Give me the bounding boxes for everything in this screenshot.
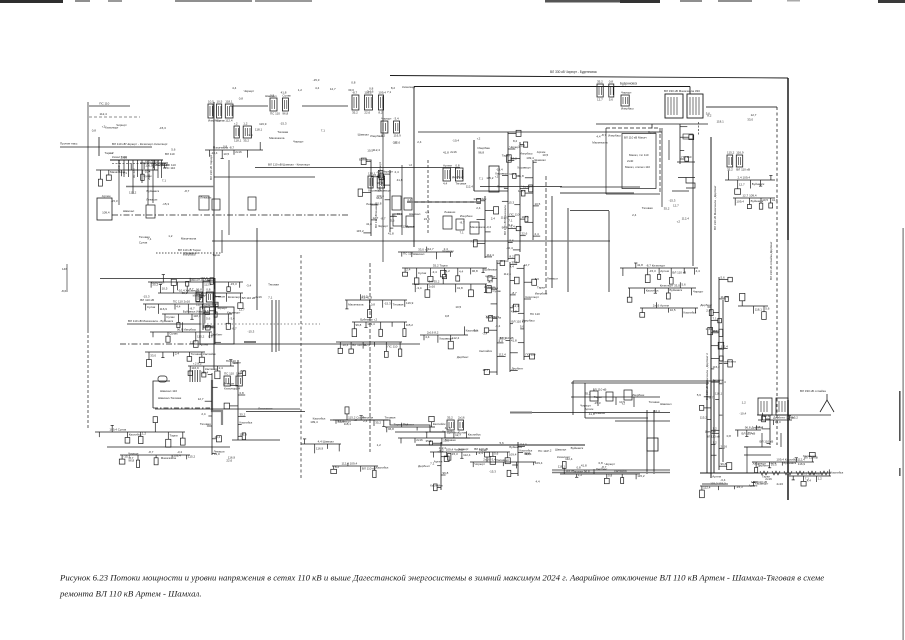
wire gray y447 [744, 446, 771, 448]
svg-text:22,6: 22,6 [364, 343, 370, 347]
wire x647 [646, 410, 648, 474]
svg-text:8,2: 8,2 [513, 139, 518, 143]
svg-text:41,8: 41,8 [281, 91, 287, 95]
svg-text:22,6: 22,6 [364, 111, 370, 115]
labels bottom-left [128, 450, 235, 463]
vbus x212 lower [198, 371, 225, 455]
svg-text:118,1: 118,1 [558, 464, 566, 468]
svg-text:Махач, тяг 110: Махач, тяг 110 [629, 153, 649, 157]
svg-text:41,8: 41,8 [772, 198, 778, 202]
svg-text:2,4: 2,4 [175, 352, 180, 356]
bus [140, 159, 176, 170]
wire x229 [228, 160, 230, 235]
svg-text:Тяговая 96,8: Тяговая 96,8 [572, 470, 590, 474]
svg-text:ВЛ 110 кВ Чирюрт - Кизилюрт-Ки: ВЛ 110 кВ Чирюрт - Кизилюрт-Кизилюрт [112, 142, 168, 146]
svg-text:ВЛ 330 кВ Чирюрт - Буденновск: ВЛ 330 кВ Чирюрт - Буденновск [550, 70, 597, 74]
svg-text:0,8: 0,8 [206, 288, 211, 292]
svg-text:-15,3: -15,3 [594, 401, 601, 405]
labels midrect [585, 400, 660, 416]
vbus x441 TPP [426, 439, 451, 491]
svg-text:4,4: 4,4 [536, 480, 541, 484]
svg-text:5,6: 5,6 [494, 452, 499, 456]
svg-text:5,6: 5,6 [500, 441, 505, 445]
labels top-left [92, 102, 166, 133]
svg-text:-3,4: -3,4 [246, 284, 252, 288]
wire left feeder dashed [87, 330, 89, 430]
svg-text:Тарки 10,5: Тарки 10,5 [394, 423, 409, 427]
svg-text:22,6: 22,6 [424, 217, 430, 221]
svg-text:Хасавюрт: Хасавюрт [496, 458, 510, 462]
svg-text:ПС 110 2x16: ПС 110 2x16 [173, 300, 191, 304]
svg-text:7,1: 7,1 [713, 317, 718, 321]
svg-text:-10,4: -10,4 [739, 411, 746, 415]
wire y167 Shamkhal [255, 167, 460, 169]
svg-text:5,6 118,1: 5,6 118,1 [190, 278, 203, 282]
svg-text:115,2: 115,2 [486, 176, 494, 180]
wire Derbent gray [754, 472, 831, 474]
bus box midrect 2 [606, 392, 613, 401]
svg-text:2x16: 2x16 [429, 285, 436, 289]
svg-text:0,8: 0,8 [351, 81, 356, 85]
svg-text:112,4: 112,4 [682, 217, 690, 221]
labels corridor2 [366, 202, 430, 228]
svg-text:8,2: 8,2 [510, 255, 515, 259]
labels staircase [353, 416, 456, 450]
svg-text:4,4: 4,4 [807, 478, 812, 482]
svg-text:т.2: т.2 [677, 219, 681, 223]
svg-text:4,4: 4,4 [425, 211, 430, 215]
svg-text:7,1: 7,1 [321, 129, 326, 133]
svg-text:4,4 Шамхал: 4,4 Шамхал [318, 440, 335, 444]
svg-text:-15,3: -15,3 [111, 199, 118, 203]
wire x585 [584, 383, 586, 418]
labels central upper [443, 137, 525, 155]
svg-text:1,2: 1,2 [142, 432, 147, 436]
svg-text:7,1: 7,1 [748, 431, 753, 435]
svg-text:12,7: 12,7 [428, 247, 434, 251]
bus box corridor [392, 196, 401, 210]
bus 188-366 [188, 360, 241, 379]
svg-text:1,2: 1,2 [298, 88, 303, 92]
svg-text:2,4: 2,4 [406, 268, 411, 272]
svg-text:10,5: 10,5 [542, 153, 548, 157]
svg-text:-3,4: -3,4 [507, 223, 513, 227]
svg-text:109,4: 109,4 [509, 453, 517, 457]
rect Artem-Shamkhal block (open, dash-dot bottom) [153, 381, 170, 408]
svg-text:Сулак: Сулак [418, 271, 427, 275]
labels ring below [632, 198, 689, 223]
svg-text:7,1: 7,1 [479, 177, 484, 181]
svg-text:Махачкала: Махачкала [592, 141, 608, 145]
wire VL-330 Chiryurt-Budennovsk [390, 76, 788, 79]
svg-text:Изербаш: Изербаш [535, 291, 548, 295]
svg-text:Буйнакск: Буйнакск [509, 445, 522, 449]
svg-text:Артем: Артем [102, 194, 111, 198]
svg-text:2,4: 2,4 [444, 247, 449, 251]
svg-text:Артем: Артем [434, 459, 443, 463]
svg-text:Хасавюрт: Хасавюрт [377, 189, 391, 193]
svg-text:Рисунок 6.23 Потоки мощности и: Рисунок 6.23 Потоки мощности и уровни на… [59, 573, 824, 583]
svg-text:Хасавюрт: Хасавюрт [517, 165, 531, 169]
wire y440 Zagorodny [232, 439, 280, 441]
wire y241 [212, 240, 610, 242]
svg-text:Изербаш: Изербаш [632, 393, 645, 397]
svg-text:109,4 96,8: 109,4 96,8 [145, 159, 160, 163]
bus airport stub [331, 462, 389, 478]
wire x552 [551, 196, 553, 288]
labels left [105, 147, 176, 182]
wire y106b [302, 105, 348, 107]
svg-text:Каспийск: Каспийск [376, 466, 389, 470]
svg-text:0,8: 0,8 [240, 391, 245, 395]
svg-text:Хасавюрт: Хасавюрт [337, 419, 351, 423]
svg-text:Тяговая: Тяговая [277, 130, 288, 134]
bus Novolak r1 [398, 247, 453, 260]
bus box c3 [470, 222, 479, 234]
bus Derbent bottom [789, 469, 844, 486]
svg-text:Чирюрт: Чирюрт [378, 224, 389, 228]
wire x99 [98, 137, 100, 156]
svg-text:1,2: 1,2 [713, 440, 718, 444]
svg-text:112,4: 112,4 [703, 485, 711, 489]
svg-text:41,8: 41,8 [518, 174, 524, 178]
bus stair row1 [333, 407, 388, 427]
svg-text:ВЛ 110 кВ: ВЛ 110 кВ [706, 435, 720, 439]
svg-text:1,2: 1,2 [818, 477, 823, 481]
svg-text:96,8 Изербаш: 96,8 Изербаш [177, 328, 197, 332]
vbus x203 [193, 277, 216, 330]
svg-text:0,8: 0,8 [371, 303, 376, 307]
svg-text:Дербент: Дербент [700, 303, 712, 307]
bus left 170 [96, 160, 170, 186]
svg-text:35,2: 35,2 [240, 412, 246, 416]
bus Derbent y462 [752, 453, 815, 473]
svg-text:Шамхал: Шамхал [413, 252, 425, 256]
svg-text:2,4: 2,4 [417, 140, 422, 144]
svg-text:5,6: 5,6 [682, 283, 687, 287]
substation top2 [621, 91, 634, 111]
svg-text:ВЛ 330 кВ Махачкала 330: ВЛ 330 кВ Махачкала 330 [664, 89, 700, 93]
svg-text:118,1: 118,1 [715, 392, 723, 396]
wire gray x568 [567, 208, 569, 292]
svg-text:Хасавюрт: Хасавюрт [755, 482, 769, 486]
svg-text:2,4: 2,4 [201, 412, 206, 416]
svg-text:22,6: 22,6 [522, 232, 528, 236]
substation corridor [368, 172, 391, 193]
svg-text:4,4: 4,4 [176, 304, 181, 308]
svg-text:-10,4: -10,4 [506, 246, 513, 250]
wire dotted y324 [200, 323, 320, 325]
svg-text:4,4: 4,4 [315, 86, 320, 90]
substation Tarki [196, 288, 214, 307]
svg-text:ПС 110: ПС 110 [99, 102, 109, 106]
svg-text:Каспийск: Каспийск [684, 311, 697, 315]
svg-text:12,7: 12,7 [236, 372, 242, 376]
labels central top [452, 150, 548, 188]
labels central [443, 206, 513, 253]
svg-text:Изербаш: Изербаш [608, 134, 621, 138]
svg-text:Чирюрт: Чирюрт [244, 89, 255, 93]
svg-text:2,4: 2,4 [395, 170, 400, 174]
svg-text:ВЛ 110 кВ: ВЛ 110 кВ [760, 440, 774, 444]
svg-text:118,1: 118,1 [755, 308, 763, 312]
vbus x238 Artem [223, 359, 253, 440]
substation Chiryurt GES-2 [381, 117, 401, 138]
wire y124 [596, 123, 708, 125]
svg-text:5,6 35,2: 5,6 35,2 [429, 280, 440, 284]
svg-text:-8,7: -8,7 [148, 450, 154, 454]
wire x276 [275, 300, 277, 352]
svg-text:-15,3: -15,3 [123, 454, 130, 458]
svg-text:-8,7: -8,7 [488, 280, 494, 284]
svg-text:12,7: 12,7 [198, 397, 204, 401]
svg-text:116,9: 116,9 [316, 447, 324, 451]
svg-text:Тяговая: Тяговая [393, 302, 404, 306]
labels central lower [445, 305, 540, 359]
svg-text:Тяговая: Тяговая [713, 378, 724, 382]
svg-text:Дербент: Дербент [457, 355, 469, 359]
bus Izberbash 1 [620, 263, 700, 284]
svg-text:ремонта ВЛ 110 кВ Артем - Шам: ремонта ВЛ 110 кВ Артем - Шамхал. [59, 589, 202, 599]
svg-text:5,6: 5,6 [697, 393, 702, 397]
wire x781 [780, 433, 782, 447]
svg-text:96,8: 96,8 [721, 462, 727, 466]
svg-text:ПС 110: ПС 110 [510, 212, 520, 216]
wire y411 Leninkent [246, 411, 305, 413]
svg-text:Каспийск: Каспийск [646, 289, 659, 293]
svg-text:115,2: 115,2 [727, 151, 735, 155]
bus Izberbash 2 [627, 282, 704, 302]
wire x714 [713, 380, 715, 473]
svg-text:-8,6: -8,6 [61, 289, 67, 293]
svg-text:1,2: 1,2 [377, 443, 382, 447]
wire y344 [195, 343, 420, 345]
svg-text:ПС 110: ПС 110 [538, 449, 548, 453]
wire x654 [653, 410, 655, 474]
svg-text:12,7: 12,7 [483, 368, 489, 372]
svg-text:112,4: 112,4 [769, 461, 777, 465]
svg-text:Каспийск: Каспийск [129, 432, 142, 436]
svg-text:Сулак: Сулак [166, 315, 175, 319]
vbus x497 [483, 259, 509, 375]
wire gray x723 [722, 300, 724, 462]
svg-text:112,4: 112,4 [504, 272, 512, 276]
svg-text:ВЛ 110 кВ: ВЛ 110 кВ [140, 298, 154, 302]
wire x747 [746, 447, 748, 473]
svg-text:Шамхал-Тяговая: Шамхал-Тяговая [158, 396, 182, 400]
svg-text:35,2: 35,2 [182, 291, 188, 295]
svg-text:ВЛ 110 кВ Махачкала - Буйнакск: ВЛ 110 кВ Махачкала - Буйнакск [128, 319, 174, 323]
svg-text:Изербаш: Изербаш [621, 107, 634, 111]
substation top [597, 80, 614, 102]
bus Izberbash 3 [640, 302, 698, 317]
labels bottom-center [418, 441, 603, 484]
svg-text:1,2: 1,2 [446, 269, 451, 273]
svg-text:Артем: Артем [199, 343, 208, 347]
svg-text:2,4: 2,4 [476, 206, 481, 210]
bus box Makhachkala-330 A [665, 94, 683, 118]
svg-text:116,9: 116,9 [191, 366, 199, 370]
svg-text:Махачкала: Махачкала [181, 237, 197, 241]
labels y240 left [139, 234, 221, 257]
svg-text:116,9: 116,9 [736, 151, 744, 155]
svg-text:96,8: 96,8 [282, 112, 288, 116]
svg-text:Кизил ГЭС: Кизил ГЭС [112, 155, 128, 159]
svg-text:Леваши: Леваши [200, 196, 211, 200]
svg-text:112,4: 112,4 [512, 304, 520, 308]
svg-text:0,8: 0,8 [208, 335, 213, 339]
svg-text:4,4: 4,4 [696, 269, 701, 273]
wire x573 [572, 381, 574, 415]
wire y106 left [89, 105, 130, 107]
svg-text:Тарки: Тарки [479, 448, 487, 452]
svg-text:5,6: 5,6 [520, 325, 525, 329]
svg-text:ВЛ 110 кВ: ВЛ 110 кВ [500, 336, 514, 340]
wire left feeder x88 [87, 102, 89, 330]
svg-text:Дербент: Дербент [211, 333, 223, 337]
svg-text:7,1: 7,1 [387, 90, 392, 94]
bus small right [735, 425, 764, 437]
wire staircase ring [686, 178, 695, 189]
svg-text:10,5: 10,5 [455, 305, 461, 309]
comb drop [157, 160, 159, 178]
bus mid-left r1 [148, 275, 243, 292]
svg-text:ПС 110: ПС 110 [388, 345, 398, 349]
labels Derbent bottom [712, 474, 811, 487]
svg-text:-10,4: -10,4 [496, 168, 503, 172]
wire fork stem [826, 394, 828, 400]
wire x707 [706, 380, 708, 473]
wire x383 [382, 96, 384, 262]
svg-text:Чирюрт: Чирюрт [474, 462, 485, 466]
svg-text:-10,4: -10,4 [653, 409, 660, 413]
svg-text:Каспийск: Каспийск [203, 352, 216, 356]
svg-text:4,4: 4,4 [443, 182, 448, 186]
svg-text:112,4 109,4: 112,4 109,4 [342, 462, 358, 466]
svg-text:10,5: 10,5 [217, 100, 223, 104]
wire gray y472 [552, 472, 670, 474]
wire y470 [552, 469, 670, 471]
induction zigzags on y473 [760, 471, 768, 475]
svg-text:-10,4: -10,4 [342, 343, 349, 347]
svg-text:112,4: 112,4 [466, 185, 474, 189]
svg-text:109,4: 109,4 [736, 200, 744, 204]
svg-text:Изербаш: Изербаш [370, 134, 383, 138]
bus bl r2 [119, 454, 195, 468]
svg-text:0,8: 0,8 [599, 461, 604, 465]
labels Levashi [310, 417, 351, 427]
scan artifact: top edge strip [0, 0, 63, 3]
svg-text:2,4: 2,4 [632, 213, 637, 217]
svg-text:10,5: 10,5 [208, 100, 214, 104]
bus right 180 [725, 171, 775, 195]
svg-text:2x16 8,2: 2x16 8,2 [427, 331, 439, 335]
svg-text:ПС 110: ПС 110 [226, 359, 236, 363]
svg-text:Кизилюрт: Кизилюрт [151, 280, 165, 284]
svg-text:Шамхал: Шамхал [358, 132, 370, 136]
svg-text:Изербаш: Изербаш [520, 152, 533, 156]
svg-text:96,8: 96,8 [356, 323, 362, 327]
svg-text:-15,3: -15,3 [649, 269, 656, 273]
bus stair row3 [398, 431, 481, 444]
bus box [248, 197, 256, 210]
svg-text:7,1: 7,1 [470, 239, 475, 243]
bus 336-342 [336, 342, 402, 357]
svg-text:109,4 Каспийск: 109,4 Каспийск [776, 458, 798, 462]
svg-text:Дербент Сулак: Дербент Сулак [773, 416, 795, 420]
svg-text:5,6: 5,6 [206, 317, 211, 321]
vbus x524 [510, 264, 540, 360]
labels corridor [376, 163, 429, 236]
svg-text:41,8: 41,8 [443, 151, 449, 155]
svg-text:-15,3: -15,3 [384, 302, 391, 306]
wire dash-dot y344 [120, 343, 195, 345]
svg-text:-15,3: -15,3 [313, 78, 320, 82]
svg-text:2x16: 2x16 [458, 416, 465, 420]
svg-text:116,9: 116,9 [259, 122, 267, 126]
svg-text:10,5: 10,5 [670, 308, 676, 312]
bus 352-322 [352, 318, 413, 337]
svg-text:-3,4: -3,4 [486, 225, 492, 229]
svg-text:1,2: 1,2 [578, 473, 583, 477]
svg-text:Тяговая: Тяговая [191, 352, 202, 356]
svg-text:ПС 110: ПС 110 [270, 112, 280, 116]
bus Novolak r2 [402, 264, 498, 285]
svg-text:Каспийск: Каспийск [614, 469, 627, 473]
svg-text:2,4: 2,4 [236, 387, 241, 391]
bus box midrect 1 [590, 391, 598, 401]
svg-text:Чирюрт: Чирюрт [621, 91, 632, 95]
svg-text:т.2: т.2 [495, 175, 499, 179]
svg-text:35,2: 35,2 [375, 421, 381, 425]
svg-text:т.2: т.2 [353, 418, 357, 422]
vbus x215 [200, 276, 221, 344]
svg-text:1,2: 1,2 [203, 293, 208, 297]
svg-text:96,8: 96,8 [376, 196, 382, 200]
vbus x510 lower [499, 261, 526, 373]
svg-text:0,8: 0,8 [223, 145, 228, 149]
svg-text:Буйнакск: Буйнакск [359, 157, 372, 161]
bus bc r2 [470, 452, 543, 468]
svg-text:35,2: 35,2 [597, 80, 603, 84]
svg-text:8,2: 8,2 [378, 111, 383, 115]
svg-text:Прочие нагр.: Прочие нагр. [60, 142, 78, 146]
svg-text:Леваши: Леваши [366, 202, 377, 206]
bus y486 [700, 482, 769, 498]
svg-text:Артем: Артем [712, 474, 721, 478]
wire drop [689, 87, 691, 95]
svg-text:112,4: 112,4 [439, 446, 447, 450]
svg-text:8,2 41,8: 8,2 41,8 [361, 296, 372, 300]
svg-text:Шамхал 110: Шамхал 110 [160, 389, 177, 393]
wire dash-dot y215 [112, 214, 350, 216]
bus box small [683, 134, 693, 139]
svg-text:118,1: 118,1 [255, 127, 263, 131]
svg-text:Сулак: Сулак [169, 332, 178, 336]
svg-text:0,8: 0,8 [239, 97, 244, 101]
wire dash x370 [369, 263, 371, 452]
svg-text:2,4 109,4: 2,4 109,4 [738, 176, 751, 180]
wire y202 dash overlay [407, 201, 480, 203]
svg-text:112,4: 112,4 [565, 457, 573, 461]
labels Derbent 2 [752, 454, 817, 486]
wire gray y193 [560, 192, 634, 194]
bus box Kizilyurt [97, 198, 112, 220]
svg-text:Тяговая: Тяговая [642, 206, 653, 210]
svg-text:115,2: 115,2 [713, 365, 721, 369]
svg-text:0,8: 0,8 [609, 80, 614, 84]
svg-text:-15,3: -15,3 [669, 198, 676, 202]
